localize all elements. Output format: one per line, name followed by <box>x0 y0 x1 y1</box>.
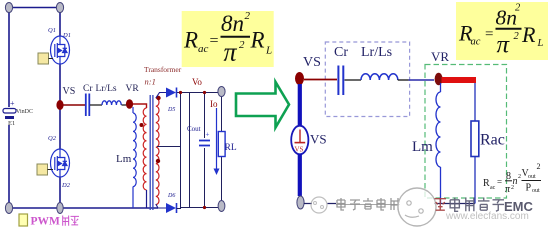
svg-text:ac: ac <box>490 185 496 191</box>
svg-text:www.elecfans.com: www.elecfans.com <box>445 211 529 222</box>
svg-text:n: n <box>513 176 518 187</box>
svg-text:P: P <box>526 183 532 194</box>
svg-text:n:1: n:1 <box>145 77 156 87</box>
svg-text:L: L <box>265 45 272 57</box>
svg-text:R: R <box>250 28 265 53</box>
svg-text:2: 2 <box>245 10 251 22</box>
svg-text:PWM: PWM <box>31 216 61 228</box>
svg-text:D6: D6 <box>167 193 175 199</box>
svg-text:Rac: Rac <box>480 132 505 149</box>
svg-text:8n: 8n <box>496 6 518 30</box>
svg-text:Q2: Q2 <box>48 135 57 142</box>
svg-text:Transformer: Transformer <box>144 65 182 74</box>
svg-text:E1: E1 <box>8 120 15 127</box>
svg-text:R: R <box>483 178 490 189</box>
svg-text:2: 2 <box>515 3 521 14</box>
svg-text:=: = <box>485 27 493 43</box>
svg-text:out: out <box>528 174 536 180</box>
svg-text:ac: ac <box>471 37 481 48</box>
svg-text:Lr/Ls: Lr/Ls <box>361 45 392 60</box>
svg-text:Lr/Ls: Lr/Ls <box>96 84 117 94</box>
svg-text:RL: RL <box>225 143 237 153</box>
svg-text:2: 2 <box>537 162 541 171</box>
svg-text:D2: D2 <box>61 182 71 189</box>
svg-text:VS: VS <box>63 86 76 97</box>
svg-text:Cout: Cout <box>187 125 201 133</box>
svg-text:VS: VS <box>310 132 327 147</box>
svg-text:D5: D5 <box>167 107 175 113</box>
svg-text:Cr: Cr <box>334 45 348 60</box>
svg-text:Vo: Vo <box>192 77 202 87</box>
svg-text:+: + <box>10 99 15 108</box>
svg-text:VR: VR <box>126 84 140 94</box>
svg-text:Cr: Cr <box>83 84 93 94</box>
svg-text:π: π <box>224 38 238 67</box>
svg-text:VS: VS <box>303 55 321 70</box>
svg-text:2: 2 <box>239 39 245 51</box>
svg-text:out: out <box>532 188 540 194</box>
svg-text:Q1: Q1 <box>48 27 56 34</box>
svg-text:2: 2 <box>514 31 520 42</box>
svg-text:VinDC: VinDC <box>16 109 33 115</box>
svg-text:π: π <box>497 32 511 59</box>
svg-text:R: R <box>521 22 536 47</box>
svg-text:+: + <box>206 131 210 139</box>
svg-text:VR: VR <box>431 49 449 64</box>
svg-text:Lm: Lm <box>116 153 132 165</box>
svg-text:L: L <box>537 38 544 49</box>
svg-text:D1: D1 <box>62 32 71 39</box>
svg-text:VS: VS <box>295 146 304 154</box>
svg-text:=: = <box>497 177 502 187</box>
svg-text:R: R <box>183 28 198 53</box>
svg-text:=: = <box>210 33 219 50</box>
svg-text:8n: 8n <box>221 11 244 36</box>
svg-text:Io: Io <box>210 99 218 109</box>
svg-text:Lm: Lm <box>412 139 433 155</box>
svg-text:ac: ac <box>198 43 209 55</box>
